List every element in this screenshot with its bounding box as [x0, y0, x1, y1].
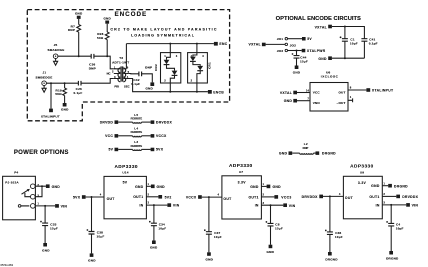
svg-text:10µF: 10µF [50, 226, 58, 230]
svg-text:POWER OPTIONS: POWER OPTIONS [14, 149, 69, 156]
svg-text:SMAEDGE: SMAEDGE [47, 48, 64, 52]
svg-text:10µF: 10µF [350, 41, 358, 45]
svg-text:VIN: VIN [289, 204, 296, 208]
wire P4 pin2/pin3 to GND [35, 186, 46, 197]
U7 pin 3 IN to VIN [261, 204, 283, 206]
svg-text:DNP: DNP [303, 146, 309, 150]
svg-text:50Ω: 50Ω [55, 92, 62, 96]
svg-text:5V2: 5V2 [165, 195, 172, 199]
inductor L3 FERRITE 5V to 5VX [108, 140, 163, 152]
svg-text:J5: J5 [54, 43, 58, 47]
svg-text:JO2: JO2 [290, 43, 297, 47]
svg-text:NC: NC [107, 72, 111, 76]
svg-text:ENCODE: ENCODE [114, 11, 147, 18]
svg-text:DRGND: DRGND [325, 257, 338, 261]
svg-text:DRVDDX: DRVDDX [156, 120, 172, 124]
svg-text:OUT1: OUT1 [369, 195, 379, 199]
svg-text:IN: IN [376, 203, 380, 207]
svg-text:ADP3330: ADP3330 [114, 164, 137, 169]
svg-text:OUT1: OUT1 [248, 195, 258, 199]
svg-text:XTALINPUT: XTALINPUT [372, 89, 394, 93]
svg-text:14: 14 [306, 88, 309, 92]
svg-text:10µF: 10µF [335, 235, 343, 239]
jumper JO2 pin [285, 43, 287, 45]
ground at C42 [150, 82, 154, 86]
svg-text:10µF: 10µF [396, 227, 404, 231]
svg-text:GND: GND [293, 70, 301, 74]
capacitor C36 10uF [329, 196, 331, 232]
svg-text:GND: GND [279, 151, 288, 155]
inductor L4 FERRITE VCC to VCCX [105, 127, 167, 139]
svg-text:ENCB: ENCB [213, 91, 224, 95]
svg-text:5VX: 5VX [73, 195, 81, 199]
svg-text:0.1µF: 0.1µF [369, 41, 378, 45]
wire U6 OUT pin 8 to XTALINPUT [348, 89, 366, 91]
U14 pin 3 IN to VIN [146, 204, 167, 206]
ENCODE section dashed boundary [27, 10, 229, 121]
U7 pin 2 OUT1 to VCC3 [261, 196, 274, 198]
svg-text:GND: GND [273, 185, 282, 189]
node XTALINPUT [50, 82, 52, 84]
svg-text:L4: L4 [134, 127, 138, 131]
svg-text:SMBEDGE: SMBEDGE [35, 75, 52, 79]
capacitor C44 10uF [296, 50, 298, 52]
svg-text:GND: GND [52, 185, 61, 189]
svg-text:DRGND: DRGND [322, 151, 336, 155]
svg-text:ADP3330: ADP3330 [350, 164, 373, 169]
capacitor C33 10uF [44, 206, 46, 223]
svg-text:VNN: VNN [313, 101, 321, 105]
capacitor C36 DNP [91, 54, 94, 59]
svg-text:DNP: DNP [89, 66, 96, 70]
svg-text:DNP: DNP [145, 66, 152, 70]
svg-text:PJ-102A: PJ-102A [5, 181, 19, 185]
U7 pin 1 GND [261, 185, 266, 187]
svg-text:OUT: OUT [345, 196, 354, 200]
U14 pin 2 OUT1 to 5V2 [146, 196, 158, 198]
svg-text:VXTAL: VXTAL [280, 91, 292, 95]
svg-text:DRGND: DRGND [394, 184, 408, 188]
svg-text:P4: P4 [14, 170, 18, 174]
capacitor C26 0.1uF [78, 81, 81, 86]
svg-text:PRI: PRI [114, 84, 119, 88]
svg-text:L3: L3 [134, 140, 138, 144]
svg-text:VCCX: VCCX [156, 134, 167, 138]
svg-text:5V: 5V [307, 37, 312, 41]
svg-text:10µF: 10µF [214, 235, 222, 239]
svg-text:0.1µF: 0.1µF [74, 91, 83, 95]
svg-text:5V: 5V [108, 148, 113, 152]
capacitor C42 0.1uF [139, 72, 142, 77]
svg-text:GND: GND [284, 99, 293, 103]
wire T3 pin 5 through C42 [128, 74, 152, 83]
capacitor C38 10uF [91, 197, 93, 232]
svg-text:GND: GND [157, 185, 166, 189]
svg-text:J1: J1 [42, 70, 46, 74]
svg-text:OUT1: OUT1 [133, 195, 143, 199]
svg-text:GND: GND [150, 245, 158, 249]
wire T3 pin 6 to top rail / ENC [126, 44, 213, 74]
svg-text:3.3V: 3.3V [358, 181, 367, 185]
svg-text:OUT: OUT [107, 197, 116, 201]
svg-text:5VX: 5VX [156, 148, 164, 152]
svg-text:CR1: CR1 [207, 62, 211, 69]
U9 pin 3 IN to VIN [382, 204, 406, 206]
svg-text:DRVDDX: DRVDDX [302, 195, 318, 199]
svg-text:U9: U9 [360, 170, 364, 174]
ground below R19 [64, 96, 66, 103]
svg-text:DRGND: DRGND [386, 256, 399, 260]
svg-text:GND: GND [135, 185, 144, 189]
svg-text:CR2 TO MAKE LAYOUT AND PARASIT: CR2 TO MAKE LAYOUT AND PARASITIC [110, 28, 217, 32]
svg-text:U7: U7 [239, 170, 243, 174]
svg-text:VCC: VCC [313, 91, 321, 95]
svg-text:GND: GND [145, 87, 153, 91]
svg-text:GND: GND [206, 258, 214, 262]
svg-text:CR2: CR2 [154, 64, 158, 71]
wire J1 to T3 pin 3 [46, 79, 113, 84]
svg-text:GND: GND [250, 185, 259, 189]
ground arrow at J5 [55, 59, 57, 62]
U14 pin 1 GND [146, 185, 151, 187]
svg-text:GND: GND [42, 248, 50, 252]
capacitor C37 10uF [208, 197, 210, 232]
svg-text:ENC: ENC [219, 42, 227, 46]
svg-text:GND: GND [88, 259, 96, 263]
svg-text:GND: GND [318, 57, 327, 61]
svg-text:5V: 5V [123, 181, 128, 185]
svg-text:50Ω: 50Ω [97, 36, 104, 40]
wire R28 to J5 line [106, 40, 108, 57]
wire J5 to T3 pin 1 [58, 56, 114, 69]
svg-text:LOADING SYMMETRICAL: LOADING SYMMETRICAL [131, 34, 195, 38]
svg-text:VXTAL: VXTAL [315, 25, 327, 29]
svg-text:IN: IN [255, 204, 259, 208]
svg-text:VCC3: VCC3 [281, 196, 291, 200]
resistor R7 DNP [77, 25, 81, 33]
stub U6 -OUT pin 1 [348, 98, 353, 102]
svg-text:10µF: 10µF [300, 60, 308, 64]
svg-text:XTALPWR: XTALPWR [307, 49, 326, 53]
svg-text:GND: GND [61, 108, 69, 112]
svg-text:10µF: 10µF [97, 235, 105, 239]
svg-text:SEC: SEC [124, 84, 130, 88]
svg-text:VIN: VIN [61, 205, 68, 209]
svg-text:FERRITE: FERRITE [131, 144, 143, 148]
inductor L5 FERRITE DRVDD to DRVDDX [100, 113, 173, 125]
svg-text:VCC: VCC [105, 134, 113, 138]
svg-text:10µF: 10µF [158, 226, 166, 230]
svg-text:10µF: 10µF [275, 227, 283, 231]
wire P4 pin1 to VIN [35, 205, 55, 207]
ground arrow at J1 [43, 86, 45, 89]
svg-text:L5: L5 [134, 113, 138, 117]
svg-text:GND: GND [371, 184, 380, 188]
svg-text:U14: U14 [122, 171, 128, 175]
svg-text:DRVDDX: DRVDDX [402, 195, 418, 199]
resistor R19 50ohm [64, 82, 66, 84]
svg-text:GND: GND [75, 11, 83, 15]
svg-text:FERRITE: FERRITE [131, 130, 143, 134]
svg-text:DRVDD: DRVDD [100, 120, 114, 124]
svg-text:VXTAL: VXTAL [249, 43, 261, 47]
svg-text:ADP3330: ADP3330 [229, 163, 252, 168]
svg-text:–OUT: –OUT [337, 101, 346, 105]
wire cap bank top rail [332, 27, 365, 39]
capacitor C34 10uF [153, 205, 155, 223]
svg-text:GND: GND [103, 16, 111, 20]
svg-text:VIN: VIN [412, 204, 419, 208]
svg-text:L2: L2 [304, 142, 308, 146]
node ENC [214, 42, 218, 46]
svg-text:DNP: DNP [68, 28, 75, 32]
svg-text:FERRITE: FERRITE [131, 117, 143, 121]
capacitor C1 10uF [342, 39, 348, 42]
svg-text:OUT: OUT [223, 197, 232, 201]
svg-text:JO3: JO3 [277, 49, 284, 53]
svg-text:VCCX: VCCX [186, 196, 197, 200]
svg-text:XTALINPUT: XTALINPUT [41, 115, 60, 119]
U9 pin 1 GND to DRGND [382, 185, 388, 187]
wire R7 to J5 line [78, 32, 80, 56]
svg-text:IXCLOSC: IXCLOSC [321, 75, 339, 79]
svg-text:GND: GND [267, 250, 275, 254]
svg-text:IN: IN [140, 204, 144, 208]
inductor L2 DNP GND to DRGND [279, 142, 336, 155]
svg-text:OPTIONAL ENCODE CIRCUITS: OPTIONAL ENCODE CIRCUITS [276, 16, 361, 22]
wire T3 pin 4 to bottom rail / ENCB [126, 79, 207, 92]
wire VXTAL to jumper JO2 [266, 43, 286, 45]
U9 pin 2 OUT1 to DRVDDX [382, 195, 396, 197]
node ENCB [208, 90, 212, 94]
resistor R28 50ohm [105, 32, 109, 40]
capacitor C8 10uF [270, 205, 272, 223]
ground rail of cap bank [332, 57, 365, 59]
ground below C44 [296, 58, 298, 65]
capacitor C41 0.1uF [361, 39, 367, 42]
capacitor C4 10uF [390, 205, 392, 224]
svg-text:VIN: VIN [173, 204, 180, 208]
svg-text:05741-063: 05741-063 [1, 263, 14, 267]
svg-text:3.3V: 3.3V [238, 181, 247, 185]
svg-text:OUT: OUT [338, 91, 345, 95]
svg-text:JO1: JO1 [277, 37, 284, 41]
